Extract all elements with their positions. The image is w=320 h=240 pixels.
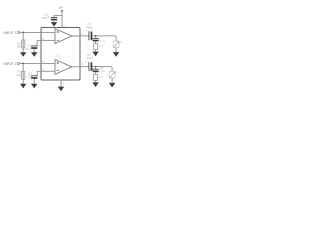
svg-text:0.1u: 0.1u (99, 38, 105, 42)
wire pin4 ground stub (60, 80, 62, 87)
capacitor C7 (92, 37, 99, 39)
svg-text:INPUT 1: INPUT 1 (4, 31, 17, 35)
ground under C4 (31, 84, 37, 89)
wire pin5 jog to C4 (37, 71, 41, 75)
wire op-amp A1 output to pin1 (72, 35, 89, 37)
wire speaker SP1 to ground (115, 48, 117, 53)
terminal V+ (61, 10, 63, 12)
speaker SP2 (109, 71, 115, 78)
wire zobel 2 drop (95, 67, 97, 70)
ground under R2 (20, 84, 26, 89)
connector J1 (17, 31, 19, 33)
op-amp A2 minus sign (57, 70, 59, 72)
svg-text:4.7: 4.7 (99, 75, 103, 79)
resistor R3 (94, 44, 98, 50)
op-amp A1 plus sign (57, 31, 59, 33)
capacitor C6 (88, 62, 90, 71)
ground pin4 (58, 87, 64, 92)
ground SP1 (113, 52, 119, 57)
wire input1 to pin7 and op-amp (20, 31, 56, 33)
node after C5 (95, 35, 97, 37)
svg-text:4.7: 4.7 (99, 44, 103, 48)
capacitor C3 (31, 45, 38, 47)
svg-text:INPUT 2: INPUT 2 (4, 62, 17, 66)
connector J2 (17, 62, 19, 64)
svg-text:10u: 10u (27, 75, 32, 79)
capacitor C4 (31, 75, 38, 77)
background (0, 0, 125, 100)
op-amp A1 (55, 29, 72, 44)
svg-text:0.1u: 0.1u (99, 69, 105, 73)
capacitor C5 (88, 31, 90, 40)
ground under C3 (31, 52, 37, 57)
svg-text:V+: V+ (59, 6, 63, 10)
svg-text:10k: 10k (16, 45, 21, 49)
svg-text:10u: 10u (26, 47, 31, 51)
op-amp A2 plus sign (57, 62, 59, 64)
capacitor C2 (51, 16, 58, 18)
svg-text:8Ω: 8Ω (118, 40, 121, 44)
svg-text:470u: 470u (86, 56, 93, 60)
op-amp A2 (55, 60, 72, 75)
wire C5 to speaker SP1 (92, 36, 116, 41)
resistor R2 (22, 71, 25, 79)
svg-text:IC1: IC1 (56, 54, 61, 58)
ground under C2 (51, 22, 57, 27)
node input1/R1 junction (22, 32, 24, 34)
op-amp A1 minus sign (57, 39, 59, 41)
wire R1 vertical (22, 32, 24, 52)
wire R3 to ground (95, 50, 97, 52)
node after C6 (95, 66, 97, 68)
wire R2 vertical (22, 63, 24, 83)
wire V+ to pin2 (61, 12, 63, 28)
wire zobel 1 drop (95, 36, 97, 39)
wire branch to C2 (54, 16, 62, 18)
ground zobel 1 (92, 52, 98, 57)
ground SP2 (109, 83, 115, 88)
svg-text:470u: 470u (86, 25, 93, 29)
wire R4 to ground (95, 80, 97, 82)
node input2/R2 junction (22, 63, 24, 65)
wire op-amp A2 output to pin3 (72, 66, 89, 68)
wire speaker SP2 to ground (111, 78, 113, 83)
resistor R1 (22, 40, 25, 48)
wire pin8 jog to C3 (37, 41, 41, 46)
svg-text:10k: 10k (16, 73, 21, 77)
wire pin5 to op-amp A2 inverting input (41, 70, 55, 72)
wire pin8 to op-amp A1 inverting input (41, 40, 55, 42)
speaker SP1 (113, 41, 119, 48)
svg-text:100u: 100u (41, 16, 48, 20)
IC U1 box (41, 28, 80, 81)
ground zobel 2 (92, 82, 98, 87)
ground under R1 (20, 52, 26, 57)
wire C6 to speaker SP2 (92, 67, 112, 72)
wire input2 to pin6 and op-amp (20, 62, 56, 64)
svg-text:8Ω: 8Ω (114, 70, 117, 74)
capacitor C8 (92, 68, 99, 70)
resistor R4 (94, 74, 98, 80)
